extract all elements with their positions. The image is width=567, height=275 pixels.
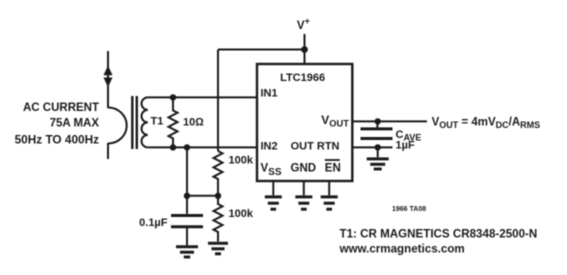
wire: V+ rail to IC supply pin [304, 50, 306, 65]
svg-text:EN: EN [325, 163, 341, 175]
node: secondary top / 10Ω top junction [170, 94, 176, 100]
ground under lower 100k [208, 243, 228, 254]
ground under 0.1µF [176, 247, 198, 257]
node: VOUT / CAVE junction [375, 118, 381, 124]
svg-text:GND: GND [291, 163, 317, 175]
capacitor 0.1µF plates [171, 216, 203, 227]
resistor 100k upper (bias) [214, 151, 223, 196]
capacitor 0.1µF: bottom stub [186, 228, 188, 245]
pin stub: EN to ground [328, 181, 330, 195]
wire: V+ stub [304, 34, 306, 50]
resistor R 10Ω [169, 97, 178, 147]
svg-text:V+: V+ [297, 16, 310, 32]
svg-text:75A MAX: 75A MAX [50, 118, 100, 130]
capacitor CAVE plates [361, 129, 393, 139]
wire: V+ vertical feed to bias divider [217, 50, 219, 152]
svg-text:www.crmagnetics.com: www.crmagnetics.com [339, 243, 465, 256]
svg-text:VOUT = 4mVDC/ARMS: VOUT = 4mVDC/ARMS [432, 117, 541, 131]
capacitor 0.1µF: top stub [186, 196, 188, 214]
svg-text:0.1µF: 0.1µF [139, 217, 168, 229]
svg-text:IN2: IN2 [261, 141, 278, 153]
resistor 100k lower (bias) [214, 196, 223, 242]
svg-text:1µF: 1µF [396, 140, 415, 152]
svg-text:VSS: VSS [261, 163, 282, 179]
svg-text:VOUT: VOUT [321, 113, 349, 129]
svg-text:AC CURRENT: AC CURRENT [23, 102, 99, 114]
svg-text:T1: T1 [151, 116, 164, 128]
svg-text:100k: 100k [229, 155, 254, 167]
pin stub: GND to ground [303, 181, 305, 195]
pin stub: VSS to ground [272, 181, 274, 195]
svg-text:10Ω: 10Ω [183, 117, 204, 129]
node: V+ junction [301, 46, 308, 53]
ground under OUT RTN [367, 159, 389, 169]
node: OUT RTN / CAVE junction [375, 144, 381, 150]
svg-text:1966 TA08: 1966 TA08 [392, 206, 426, 213]
wire: OUT RTN line [352, 146, 392, 148]
wire: AC source bottom lead [107, 143, 109, 159]
wire: OUT RTN to ground stub [377, 147, 379, 157]
capacitor CAVE: top stub [376, 121, 378, 127]
wire: AC source top lead [107, 51, 109, 108]
wire: V+ top rail [218, 49, 305, 51]
wire: node A horizontal link [187, 195, 218, 197]
svg-text:50Hz TO 400Hz: 50Hz TO 400Hz [15, 133, 99, 147]
wire: secondary top to IN1 [148, 96, 257, 98]
svg-text:IN1: IN1 [261, 88, 278, 100]
svg-text:LTC1966: LTC1966 [280, 72, 325, 84]
node A: bias divider midpoint right dot [215, 193, 221, 199]
IC U1 LTC1966 package outline [257, 64, 352, 181]
node: secondary bottom / 10Ω bottom junction [170, 144, 176, 150]
svg-text:OUT RTN: OUT RTN [291, 141, 340, 153]
ground under GND pin [295, 197, 312, 209]
ground under EN pin [321, 197, 338, 209]
wire: VOUT output line [352, 120, 427, 122]
wire: bias tap down from IN2 line [186, 147, 188, 195]
wire: secondary bottom to IN2 [148, 146, 257, 148]
transformer T1 secondary winding [142, 97, 148, 147]
node: IN2 / bias tap junction [184, 144, 190, 150]
ground under VSS pin [265, 197, 282, 209]
transformer T1 core [131, 96, 133, 149]
svg-text:100k: 100k [229, 208, 254, 220]
AC current direction arrow (double-headed) [104, 66, 113, 88]
transformer T1 primary loop [108, 108, 127, 144]
node A: bias divider midpoint left dot [184, 193, 190, 199]
svg-text:T1: CR MAGNETICS CR8348-2500-N: T1: CR MAGNETICS CR8348-2500-N [340, 228, 538, 241]
